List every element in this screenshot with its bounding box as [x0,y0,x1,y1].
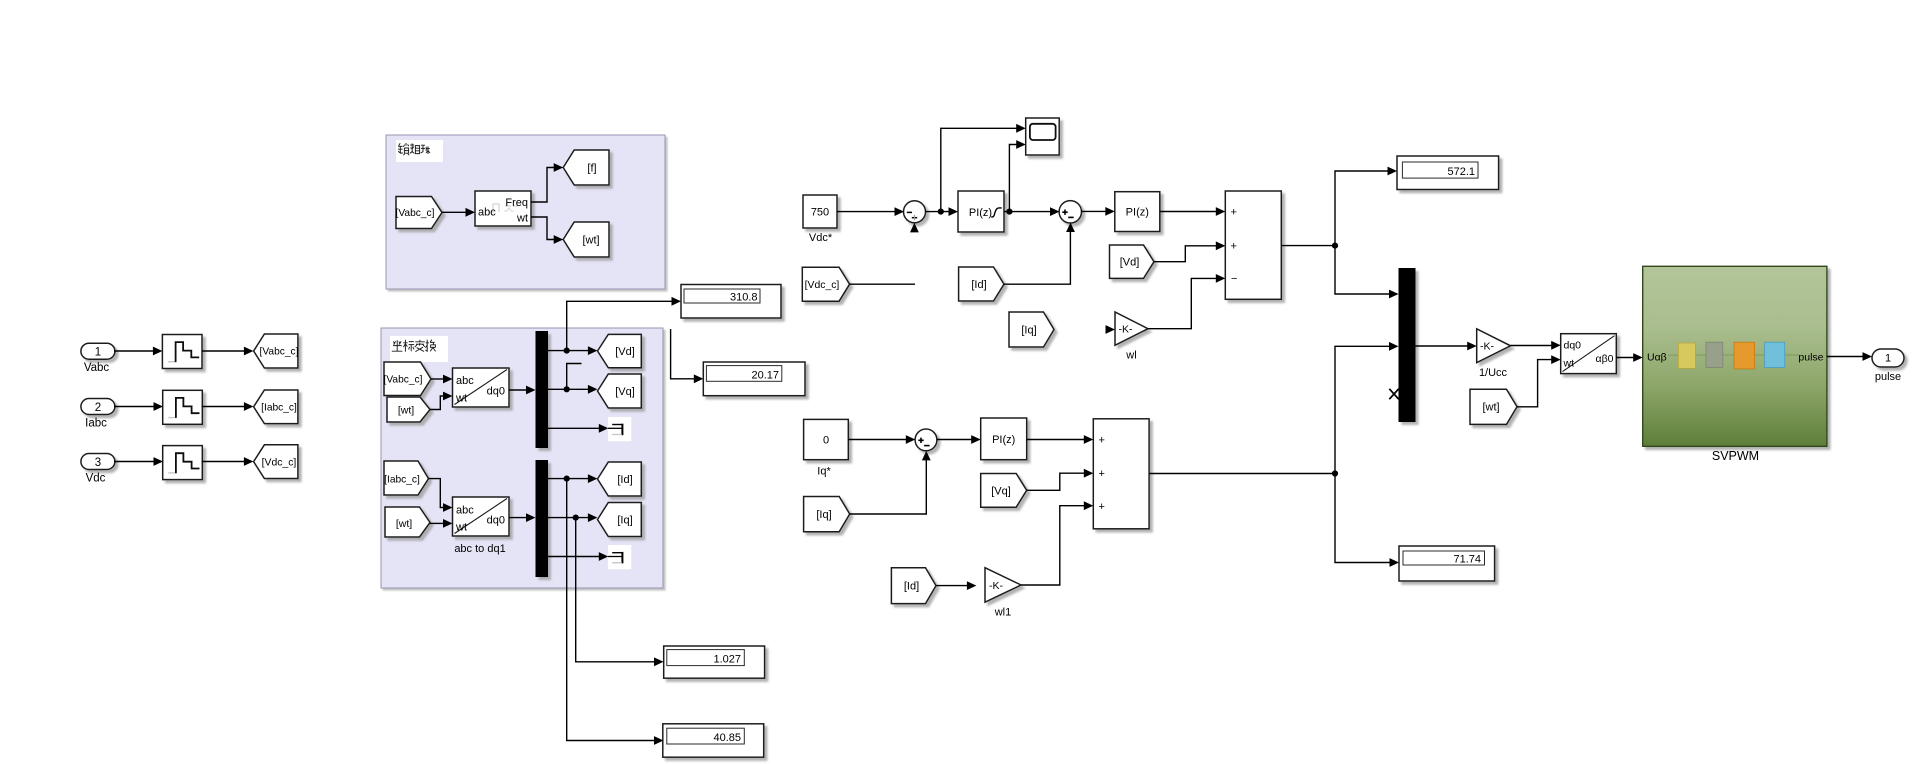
svg-text:[Id]: [Id] [617,474,632,486]
wire wt to wt input (upper) [430,396,444,410]
PLL subsystem area 锁相环 [386,135,665,289]
svg-text:3: 3 [95,457,101,469]
wire stub above Vq junction [567,364,582,388]
wire rotation block to SVPWM [1616,357,1633,359]
svg-text:71.74: 71.74 [1453,554,1481,566]
wire inport1 to zoh1 [114,350,153,352]
svg-text:abc: abc [456,505,474,517]
wire sum2 to PI(z)2 [1082,210,1106,212]
wire demux1 out1 to Vd [548,350,589,352]
wire zoh1 to goto [202,350,245,352]
svg-text:[Vq]: [Vq] [991,486,1011,498]
from tag Iabc_c (lower) [384,461,429,495]
sum junction 3 [915,429,937,451]
svg-text:wt: wt [516,213,528,225]
svg-text:[Iabc_c]: [Iabc_c] [261,403,297,414]
svg-text:abc: abc [456,375,474,387]
from tag Vq (lower) [981,474,1027,508]
goto tag Vq [598,374,642,408]
AREAS [381,135,665,588]
from tag Vabc_c (PLL input) [396,197,442,229]
wire PI(z)3 to add2 in1 [1027,439,1085,441]
goto tag wt [563,222,609,257]
svg-text:[Vdc_c]: [Vdc_c] [262,458,297,469]
wire Id branch down to display 40.85 [567,479,655,741]
display 40.85 [663,724,764,757]
from tag Vd [1110,245,1155,278]
svg-text:Vdc*: Vdc* [809,232,833,244]
wire junction2 down to display 71.74 [1335,474,1390,563]
wire zoh2 to goto [202,406,246,408]
inport 2 Iabc [81,399,115,415]
SVPWM subsystem block [1643,266,1827,446]
svg-text:Vdc: Vdc [86,472,106,484]
goto tag Id [598,462,642,496]
svg-text:wt: wt [455,522,467,534]
svg-text:750: 750 [811,207,829,219]
wire 0 to sum3 [848,439,906,441]
wire zoh3 to goto [202,461,246,463]
inport 3 Vdc [81,454,115,470]
svg-text:[Vabc_c]: [Vabc_c] [260,347,299,358]
wire Vdc_c partial [850,283,915,285]
wire demux2 out2 to Iq [548,517,589,519]
goto tag Vabc_c [254,334,299,368]
wire PI(z)I to sum2 [1004,211,1050,213]
wire gain to rotation block in1 [1511,345,1552,347]
svg-text:PI(z): PI(z) [1126,207,1149,219]
wire Vq to add2 in2 [1027,473,1085,490]
svg-text:+: + [1099,435,1105,447]
wire demux2 out3 to terminator [548,556,599,558]
svg-text:wt: wt [455,393,467,405]
wire dq0 out to demux1 [509,389,527,391]
PI(z) block 2 [1115,192,1160,232]
unconnected port cross on mux in3 [1389,389,1398,399]
abc to dq1 transform block [453,497,510,536]
svg-text:+: + [1231,241,1237,253]
scope [1026,118,1060,155]
svg-text:-K-: -K- [989,580,1004,592]
wire wt to wt input (lower) [430,522,444,524]
svg-text:Iabc: Iabc [85,417,107,429]
wire dq1 out to demux2 [509,517,527,519]
svg-text:[Iabc_c]: [Iabc_c] [384,475,420,486]
demux 1 (Vdq) [536,331,549,448]
PI(z) block 3 [981,418,1027,460]
goto tag Iabc_c [254,390,298,424]
add block 1 [1225,191,1281,299]
from tag Vdc_c [802,267,849,301]
arrow into gain wl (input stub) [1106,325,1116,334]
wire PI(z)2 to add1 in1 [1160,211,1217,213]
area label 锁相环 (drawn strokes) [398,143,430,155]
wire Iabc_c to abc input [429,479,444,508]
svg-text:2: 2 [95,402,101,414]
wire demux1 out3 to terminator [548,427,599,429]
from tag wt (lower) [385,507,430,537]
svg-text:[Vd]: [Vd] [615,346,635,358]
svg-text:pulse: pulse [1875,371,1901,383]
display 20.17 [703,362,805,396]
wire Id up to sum2 bottom [1004,232,1070,285]
terminator 2 patch [608,545,631,569]
coordinate transform area 坐标变换 [381,328,663,588]
wire PLL Freq to f [531,168,555,203]
svg-text:dq0: dq0 [487,515,505,527]
svg-text:+: + [1099,501,1105,513]
from tag Id (lower) [891,568,936,604]
svg-text:[wt]: [wt] [396,518,412,530]
gain wl1 [985,568,1021,603]
zero-order hold 3 [163,446,203,480]
wire Iq up to sum3 bottom [850,460,927,514]
wire Vabc_c to abc input [431,378,444,380]
wire gain wl to add1 in3 [1148,278,1216,328]
svg-text:0: 0 [823,435,829,447]
wire add1 out to junction [1281,245,1335,247]
wire PLL wt to wt tag [531,217,555,240]
wire vertical feed to display 20.17 [671,329,695,379]
from tag wt (right) [1470,389,1517,424]
sum junction 2 [1059,201,1081,223]
arrow into sum1 bottom [910,223,919,233]
gain 1/Ucc [1477,329,1511,363]
svg-text:572.1: 572.1 [1447,166,1475,178]
inport 1 Vabc [81,343,115,359]
svg-text:abc to dq1: abc to dq1 [454,543,505,555]
svg-text:αβ0: αβ0 [1596,353,1614,365]
gain wl [1115,312,1148,345]
zero-order hold 2 [163,390,203,424]
PLL block [475,191,531,226]
wire inport3 to zoh3 [114,461,154,463]
from tag Iq [1009,312,1054,347]
svg-text:[Vabc_c]: [Vabc_c] [384,375,423,386]
svg-text:[Iq]: [Iq] [1021,325,1036,337]
svg-text:[wt]: [wt] [582,235,599,247]
PI(z) integrator block [958,191,1004,232]
constant 0 Iq* [804,419,849,459]
svg-text:1: 1 [1885,353,1891,365]
wire inport2 to zoh2 [114,406,154,408]
display 572.1 [1397,156,1499,190]
outport 1 pulse [1872,349,1904,367]
svg-text:Freq: Freq [505,197,528,209]
zero-order hold 1 [162,335,202,369]
wire demux1 out2 to Vq [548,388,589,390]
svg-text:-K-: -K- [1480,341,1495,353]
wire SVPWM to outport [1827,356,1863,358]
display 310.8 [681,285,781,319]
constant 750 Vdc* [803,195,837,228]
svg-text:dq0: dq0 [1564,340,1582,352]
abc to dq0 transform block [453,368,510,407]
wire junction down to mux in1 [1335,246,1390,294]
wire Vd branch to display 310.8 [567,301,672,349]
svg-text:pulse: pulse [1798,352,1823,364]
from tag Iq (lower) [804,497,850,532]
svg-text:[Iq]: [Iq] [816,509,831,521]
svg-text:wl: wl [1125,350,1136,362]
svg-text:1: 1 [95,347,101,359]
wire branch to scope in1 [941,128,1017,211]
svg-text:40.85: 40.85 [713,732,741,744]
area label 坐标变换 (drawn strokes) [392,340,436,352]
svg-text:abc: abc [478,207,496,219]
wire demux2 out1 to Id [548,478,589,480]
sum junction 1 [904,201,926,223]
coord area label patch [390,336,448,362]
wire Vd to add1 in2 [1154,246,1216,262]
svg-text:Uαβ: Uαβ [1647,352,1667,364]
dq0 to alphabeta0 rotation block [1561,334,1617,374]
svg-text:−: − [1231,273,1237,285]
goto tag Vd [598,334,642,367]
svg-text:wl1: wl1 [994,607,1012,619]
wire wt tag to rotation block in2 [1517,360,1552,407]
svg-text:+: + [1099,468,1105,480]
terminator 1 patch [608,417,631,441]
wire wl1 to add2 in3 [1021,506,1084,585]
svg-text:[Id]: [Id] [904,581,919,593]
svg-text:[wt]: [wt] [398,405,414,417]
wire branch to scope in2 [1009,145,1016,212]
wire junction2 up to mux in2 [1335,346,1390,473]
goto tag Iq [598,503,642,537]
svg-text:[wt]: [wt] [1482,402,1499,414]
add block 2 [1093,419,1149,529]
svg-text:Vabc: Vabc [84,362,110,374]
svg-text:[Vdc_c]: [Vdc_c] [805,280,840,291]
wire mux out to gain 1/Ucc [1416,345,1468,347]
svg-text:dq0: dq0 [487,386,505,398]
svg-text:20.17: 20.17 [751,370,779,382]
svg-text:[Vabc_c]: [Vabc_c] [396,208,435,219]
svg-text:1.027: 1.027 [713,654,741,666]
goto tag Vdc_c [254,445,298,479]
svg-text:PI(z): PI(z) [992,434,1015,446]
svg-text:[Vd]: [Vd] [1120,257,1140,269]
svg-text:310.8: 310.8 [730,292,758,304]
from tag Vabc_c (upper) [384,362,431,396]
svg-text:SVPWM: SVPWM [1712,449,1759,463]
svg-text:PI(z): PI(z) [969,207,992,219]
wire sum1 to PI(z)I [926,211,949,213]
wire add2 out to junction 2 [1149,473,1335,475]
wire junction up to display 572.1 [1335,171,1388,246]
from tag wt (upper) [387,397,430,422]
svg-text:[Id]: [Id] [971,279,986,291]
goto tag f [563,150,609,185]
svg-text:wt: wt [1563,358,1575,370]
wire Iq branch down to display 1.027 [576,518,655,662]
svg-text:[Vq]: [Vq] [615,386,635,398]
svg-text:+: + [1231,207,1237,219]
wire 750 to sum1 [837,211,895,213]
wire Id to gain wl1 [936,585,967,587]
svg-text:Iq*: Iq* [817,466,831,478]
from tag Id [959,267,1004,301]
demux 2 (Idq) [536,460,549,577]
svg-text:[Iq]: [Iq] [617,515,632,527]
wire Vabc_c to PLL [442,211,466,213]
wire sum3 to PI(z)3 [937,439,972,441]
PLL area label patch [396,140,443,162]
svg-text:1/Ucc: 1/Ucc [1479,367,1508,379]
display 1.027 [664,646,765,678]
display 71.74 [1399,546,1495,581]
svg-text:-K-: -K- [1119,324,1134,336]
mux bar [1399,268,1416,422]
svg-text:[f]: [f] [587,163,596,175]
